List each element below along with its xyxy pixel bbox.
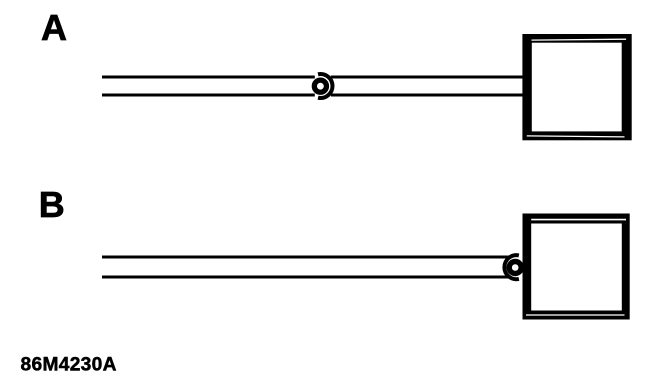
clip arc A (318, 74, 332, 98)
box B (connector body) (523, 214, 630, 320)
svg-text:B: B (39, 184, 65, 225)
wire A top right segment (331, 76, 523, 79)
wire A bottom right segment (331, 94, 523, 97)
wire A bottom (102, 94, 315, 97)
grommet ring B (509, 262, 521, 274)
wire A top (102, 76, 315, 79)
svg-text:86M4230A: 86M4230A (21, 355, 117, 376)
box A (connector body) (522, 34, 631, 140)
wire B bottom (102, 276, 511, 279)
clip arc B (504, 255, 518, 279)
wire B top (102, 256, 511, 259)
svg-text:A: A (41, 7, 67, 48)
grommet ring A (314, 80, 326, 92)
